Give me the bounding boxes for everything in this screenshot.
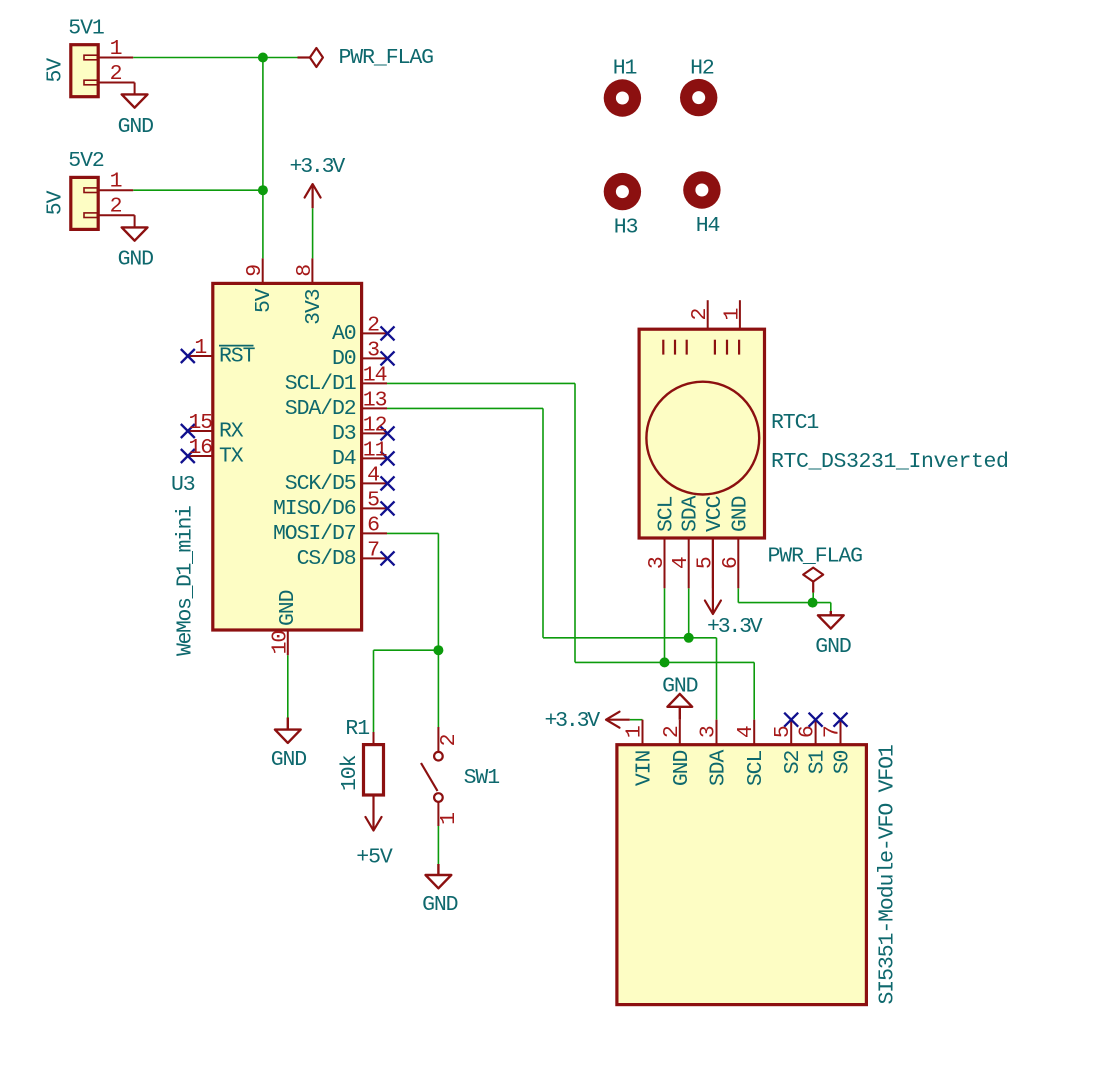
svg-text:H4: H4: [696, 214, 720, 238]
svg-text:11: 11: [363, 438, 387, 462]
svg-text:1: 1: [437, 813, 461, 825]
svg-text:SDA/D2: SDA/D2: [285, 397, 356, 421]
svg-text:SCL/D1: SCL/D1: [285, 372, 356, 396]
svg-text:6: 6: [796, 726, 820, 738]
svg-text:13: 13: [363, 388, 387, 412]
svg-text:1: 1: [110, 37, 122, 61]
svg-text:SCL: SCL: [744, 751, 768, 787]
svg-text:S1: S1: [806, 751, 830, 775]
svg-text:D4: D4: [332, 447, 356, 471]
svg-text:S0: S0: [831, 751, 855, 775]
svg-text:2: 2: [660, 726, 684, 738]
svg-text:GND: GND: [276, 590, 300, 626]
svg-text:H2: H2: [690, 57, 714, 81]
svg-text:5V1: 5V1: [68, 17, 104, 41]
svg-text:CS/D8: CS/D8: [297, 547, 356, 571]
svg-text:WeMos_D1_mini: WeMos_D1_mini: [174, 506, 198, 656]
svg-text:+5V: +5V: [356, 846, 393, 870]
svg-text:RTC_DS3231_Inverted: RTC_DS3231_Inverted: [771, 450, 1009, 474]
svg-text:SDA: SDA: [707, 750, 731, 787]
svg-text:PWR_FLAG: PWR_FLAG: [768, 545, 863, 569]
svg-text:15: 15: [188, 411, 212, 435]
svg-text:5: 5: [693, 557, 717, 569]
svg-text:16: 16: [188, 436, 212, 460]
svg-text:GND: GND: [422, 893, 458, 917]
svg-text:14: 14: [363, 363, 387, 387]
svg-text:5V: 5V: [252, 288, 276, 313]
svg-text:2: 2: [110, 62, 122, 86]
svg-text:VIN: VIN: [633, 751, 657, 787]
svg-text:10: 10: [268, 631, 292, 655]
svg-text:1: 1: [623, 726, 647, 738]
svg-text:A0: A0: [332, 322, 356, 346]
svg-text:8: 8: [293, 265, 317, 277]
svg-text:4: 4: [734, 726, 758, 738]
svg-text:TX: TX: [219, 445, 244, 469]
svg-text:GND: GND: [118, 248, 154, 272]
svg-text:2: 2: [437, 734, 461, 746]
svg-text:H1: H1: [613, 57, 637, 81]
svg-text:SDA: SDA: [679, 495, 703, 532]
svg-text:VCC: VCC: [703, 496, 727, 532]
svg-text:2: 2: [367, 313, 379, 337]
svg-text:D3: D3: [332, 422, 356, 446]
svg-text:VFO1: VFO1: [876, 745, 900, 792]
svg-text:12: 12: [363, 413, 387, 437]
svg-text:SW1: SW1: [464, 766, 500, 790]
svg-text:GND: GND: [728, 496, 752, 532]
svg-text:MOSI/D7: MOSI/D7: [273, 522, 356, 546]
svg-text:2: 2: [110, 195, 122, 219]
svg-text:RTC1: RTC1: [771, 411, 818, 435]
svg-text:1: 1: [720, 309, 744, 321]
svg-text:4: 4: [669, 557, 693, 569]
svg-text:RX: RX: [219, 420, 244, 444]
svg-text:4: 4: [367, 463, 379, 487]
svg-text:1: 1: [110, 170, 122, 194]
svg-text:3: 3: [367, 338, 379, 362]
svg-text:D0: D0: [332, 347, 356, 371]
svg-text:10k: 10k: [338, 755, 362, 791]
svg-text:7: 7: [821, 726, 845, 738]
svg-text:+3.3V: +3.3V: [544, 709, 600, 733]
svg-text:GND: GND: [118, 115, 154, 139]
svg-text:3V3: 3V3: [302, 289, 326, 325]
svg-text:SCK/D5: SCK/D5: [285, 472, 356, 496]
svg-text:+3.3V: +3.3V: [707, 615, 763, 639]
svg-text:MISO/D6: MISO/D6: [273, 497, 356, 521]
svg-text:GND: GND: [815, 635, 851, 659]
svg-text:6: 6: [719, 557, 743, 569]
svg-text:9: 9: [243, 265, 267, 277]
svg-text:2: 2: [688, 309, 712, 321]
svg-text:S2: S2: [781, 751, 805, 775]
svg-text:6: 6: [367, 513, 379, 537]
svg-text:SI5351-Module-VFO: SI5351-Module-VFO: [876, 804, 900, 1005]
svg-text:7: 7: [367, 538, 379, 562]
svg-text:U3: U3: [171, 473, 195, 497]
svg-text:5: 5: [771, 726, 795, 738]
svg-text:R1: R1: [345, 717, 369, 741]
svg-text:5: 5: [367, 488, 379, 512]
svg-text:H3: H3: [614, 216, 638, 240]
svg-text:PWR_FLAG: PWR_FLAG: [339, 46, 434, 70]
svg-text:RST: RST: [219, 345, 256, 369]
svg-text:5V2: 5V2: [68, 149, 104, 173]
svg-text:1: 1: [194, 336, 206, 360]
svg-text:3: 3: [697, 726, 721, 738]
svg-text:5V: 5V: [44, 58, 68, 83]
svg-text:GND: GND: [662, 675, 698, 699]
svg-text:GND: GND: [271, 748, 307, 772]
svg-text:GND: GND: [670, 751, 694, 787]
svg-text:+3.3V: +3.3V: [290, 155, 346, 179]
svg-text:3: 3: [645, 557, 669, 569]
svg-text:5V: 5V: [44, 190, 68, 215]
svg-text:SCL: SCL: [655, 496, 679, 532]
